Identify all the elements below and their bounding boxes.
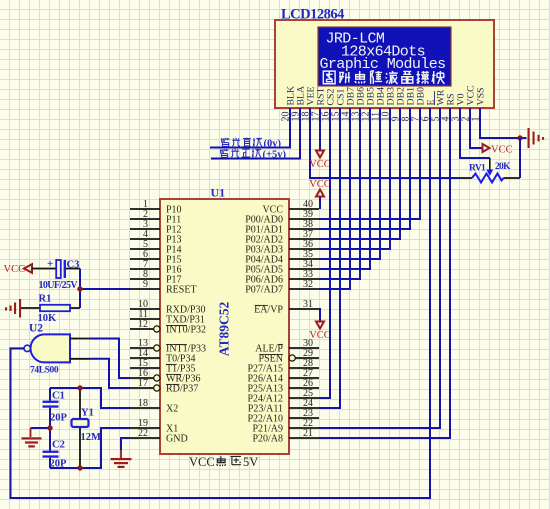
LCD pin 4 (RS) number and name	[441, 94, 457, 122]
U1 pin 36 (P03/AD3)	[245, 239, 319, 255]
LCD pin 8 (DB1) number and name	[401, 87, 417, 122]
wire: LCD R/W to U1 P21/A9	[319, 108, 440, 428]
wire: crystal bottom rail to X1	[50, 428, 130, 468]
svg-text:C2: C2	[52, 440, 65, 451]
wire: VCC/C3 to R1 vertical + junction to RESET	[80, 269, 130, 309]
LCD pin 7 (DB0) number and name	[411, 87, 427, 122]
gate U2 74LS00 (mirrored NAND)	[24, 334, 70, 362]
svg-text:10K: 10K	[38, 313, 58, 324]
svg-text:20P: 20P	[50, 413, 68, 424]
power VCC symbol at LCD pin 2	[483, 144, 513, 156]
svg-text:RD/P37: RD/P37	[166, 384, 198, 395]
net label 背光正极(+5v)	[221, 149, 287, 161]
U1 pin 30 (ALE/P)	[255, 338, 319, 354]
U1 pin 10 (RXD/P30)	[130, 299, 205, 315]
IC U1 AT89C52 body	[160, 199, 289, 454]
wire: LCD CS1 to U1 P23/A11	[319, 108, 340, 408]
U1 caption VCC电压5V	[189, 455, 258, 469]
svg-text:VCC: VCC	[309, 179, 331, 190]
svg-text:74LS00: 74LS00	[30, 366, 59, 376]
U1 pin 19 (X1)	[130, 418, 178, 434]
wire: LCD DB0 to U1 P00	[319, 108, 420, 219]
svg-text:32: 32	[303, 279, 313, 290]
U1 pin 8 (P17)	[130, 269, 182, 285]
svg-text:12M: 12M	[81, 432, 102, 443]
svg-text:VCC: VCC	[189, 455, 215, 469]
U1 pin 4 (P13)	[130, 229, 182, 245]
U1 pin 7 (P16)	[130, 259, 182, 275]
junction crystal top	[77, 385, 82, 390]
U1 pin 33 (P06/AD6)	[245, 269, 319, 285]
LCD screen area	[318, 27, 451, 86]
capacitor C2 (20P)	[43, 428, 59, 468]
svg-text:12: 12	[138, 319, 148, 330]
U1 pin 22 (GND)	[130, 428, 188, 444]
svg-text:R1: R1	[39, 294, 52, 305]
U1 pin 1 (P10)	[130, 199, 182, 215]
wire: LCD DB3 to U1 P03	[319, 108, 390, 249]
svg-text:+: +	[47, 258, 53, 270]
LCD pin 5 (WR) number and name	[431, 89, 447, 121]
svg-text:AT89C52: AT89C52	[217, 302, 232, 357]
svg-text:31: 31	[303, 299, 313, 310]
svg-text:RV1: RV1	[469, 164, 486, 174]
U1 pin 40 (VCC)	[262, 199, 319, 215]
ground symbol (crystal caps)	[22, 428, 42, 448]
U1 pin 2 (P11)	[130, 209, 181, 225]
wire: LCD RST to VCC	[319, 108, 321, 151]
svg-text:U2: U2	[29, 323, 43, 335]
U1 pin 9 (RESET)	[130, 279, 197, 295]
U1 pin 5 (P14)	[130, 239, 182, 255]
LCD module LCD12864	[275, 20, 494, 108]
svg-text:X2: X2	[166, 404, 178, 415]
wire: LCD VCC pin to VCC symbol	[470, 108, 483, 148]
svg-text:9: 9	[143, 279, 148, 290]
LCD pin 12 (DB5) number and name	[361, 87, 377, 122]
U1 pin 3 (P12)	[130, 219, 182, 235]
svg-text:VCC: VCC	[491, 145, 513, 156]
svg-text:EA/VP: EA/VP	[254, 305, 283, 316]
wire: LCD BLK backlight negative stub	[210, 108, 290, 148]
U1 pin 27 (P26/A14)	[247, 368, 319, 384]
wire: LCD DB7 to U1 P07	[319, 108, 350, 289]
U1 pin 28 (P27/A15)	[247, 358, 319, 374]
LCD pin 13 (DB6) number and name	[351, 87, 367, 122]
svg-text:(+5v): (+5v)	[263, 150, 287, 161]
U1 pin 34 (P05/AD5)	[245, 259, 319, 275]
LCD pin 1 (VSS) number and name	[471, 88, 487, 122]
wire: LCD CS2 to U1 P24/A12	[319, 108, 330, 398]
U1 pin 16 (WR/P36)	[130, 368, 200, 384]
U1 pin 24 (P23/A11)	[248, 398, 319, 414]
capacitor C1 (20P)	[43, 388, 59, 428]
svg-text:GND: GND	[166, 434, 188, 445]
U1 pin 37 (P02/AD2)	[245, 229, 319, 245]
svg-text:C3: C3	[67, 260, 80, 271]
LCD pin 9 (DB2) number and name	[391, 87, 407, 122]
power VCC symbol at LCD RST	[309, 151, 331, 171]
svg-text:10UF/25V: 10UF/25V	[39, 280, 79, 291]
U1 pin 13 (INT1/P33)	[130, 338, 206, 354]
LCD pin 17 (RST) number and name	[311, 88, 327, 122]
wire: crystal top rail to X2	[50, 388, 130, 408]
svg-text:20K: 20K	[495, 162, 511, 172]
U1 pin 32 (P07/AD7)	[245, 279, 319, 295]
U1 pin 31 (EA/VP)	[254, 299, 319, 315]
U2 input pin leads	[70, 339, 90, 359]
wire: U1 GND pin down	[121, 438, 130, 450]
wire: U2 output to LCD E (long bottom run)	[11, 108, 431, 498]
LCD pin 15 (CS1) number and name	[331, 89, 347, 122]
wire: C1/C2 midpoint to ground	[31, 427, 51, 429]
ground symbol (right, LCD VSS)	[528, 128, 545, 148]
wire: LCD VEE to RV1 left terminal	[310, 108, 459, 178]
svg-text:22: 22	[138, 428, 148, 439]
svg-text:VCC: VCC	[309, 159, 331, 170]
wire: LCD DB1 to U1 P01	[319, 108, 410, 229]
LCD screen text (Chinese) 图形点阵液晶模块	[323, 71, 444, 84]
svg-text:Y1: Y1	[81, 408, 94, 419]
U1 pin 15 (T1/P35)	[130, 358, 195, 374]
U1 pin 14 (T0/P34)	[130, 348, 195, 364]
wire: LCD BLA backlight positive stub	[211, 108, 300, 159]
power VCC symbol at U1 pin 40	[309, 179, 331, 209]
ground symbol (U1 GND)	[111, 450, 132, 468]
svg-text:U1: U1	[211, 186, 226, 200]
power VCC symbol at U1 pin 31 EA/VP	[309, 309, 331, 341]
svg-text:21: 21	[303, 428, 313, 439]
svg-text:RESET: RESET	[166, 285, 197, 296]
LCD pin 6 (E) number and name	[421, 100, 437, 122]
wire: RV1 right terminal up to VSS/ground node	[519, 138, 521, 178]
U1 pin 17 (RD/P37)	[130, 378, 198, 394]
U1 pin 12 (INT0/P32)	[130, 319, 206, 335]
U2 output lead	[11, 347, 25, 349]
U1 pin 22 (P21/A9)	[252, 418, 319, 434]
U1 pin 39 (P00/AD0)	[245, 209, 319, 225]
LCD pin 3 (V0) number and name	[451, 93, 467, 121]
LCD pin 11 (DB4) number and name	[371, 87, 387, 122]
LCD pin 14 (DB7) number and name	[341, 87, 357, 122]
svg-text:17: 17	[138, 378, 148, 389]
U1 pin 38 (P01/AD1)	[245, 219, 319, 235]
svg-text:INT0/P32: INT0/P32	[166, 325, 206, 336]
wire: U2 input A to U1 WR/P36	[90, 339, 130, 379]
wire: LCD V0 to RV1 wiper	[460, 108, 490, 158]
LCD pin 16 (CS2) number and name	[321, 89, 337, 122]
wire: LCD DB5 to U1 P05	[319, 108, 370, 269]
wire: LCD RS to U1 P20/A8	[319, 108, 450, 438]
wire: LCD DB6 to U1 P06	[319, 108, 360, 279]
U1 pin 21 (P20/A8)	[252, 428, 319, 444]
U1 pin 35 (P04/AD4)	[245, 249, 319, 265]
junction C1/C2 midpoint	[47, 425, 52, 430]
wire: LCD DB2 to U1 P02	[319, 108, 400, 239]
LCD pin 2 (VCC) number and name	[461, 85, 477, 121]
junction VSS/RV1 node	[517, 135, 522, 140]
resistor R1 (10K)	[21, 305, 80, 311]
power VCC symbol (left, at C3)	[4, 264, 33, 275]
svg-text:C1: C1	[52, 391, 65, 402]
U1 pin 26 (P25/A13)	[247, 378, 319, 394]
junction crystal bottom	[77, 465, 82, 470]
svg-text:Graphic Modules: Graphic Modules	[320, 56, 446, 73]
U1 pin 6 (P15)	[130, 249, 182, 265]
svg-text:(0v): (0v)	[264, 139, 282, 150]
net label 背光负极(0v)	[222, 138, 282, 150]
svg-text:P07/AD7: P07/AD7	[245, 285, 283, 296]
svg-text:VSS: VSS	[476, 88, 487, 106]
wire: LCD VSS to ground	[480, 108, 527, 138]
U1 pin 29 (PSEN)	[259, 348, 319, 364]
U1 pin 25 (P24/A12)	[247, 388, 319, 404]
svg-text:LCD12864: LCD12864	[281, 7, 344, 23]
crystal Y1 (12M)	[72, 390, 89, 466]
svg-text:VCC: VCC	[4, 264, 26, 275]
junction at C3/R1/RESET node	[77, 286, 82, 291]
wire: LCD DB4 to U1 P04	[319, 108, 380, 259]
wire: U2 input B to U1 RD/P37	[90, 359, 130, 388]
LCD pin 20 (BLK) number and name	[281, 86, 297, 122]
LCD pin 18 (VEE) number and name	[301, 86, 317, 121]
U1 pin 11 (TXD/P31)	[130, 309, 205, 325]
LCD pin 10 (DB3) number and name	[381, 87, 397, 122]
potentiometer RV1 (20K)	[459, 158, 520, 183]
capacitor C3 (10UF/25V electrolytic)	[32, 258, 80, 278]
svg-text:5V: 5V	[243, 455, 258, 469]
svg-text:P20/A8: P20/A8	[252, 434, 283, 445]
U1 pin 23 (P22/A10)	[247, 408, 319, 424]
svg-text:VCC: VCC	[309, 330, 331, 341]
LCD pin 19 (BLA) number and name	[291, 86, 307, 122]
ground symbol (left of R1)	[5, 299, 21, 318]
svg-text:18: 18	[138, 398, 148, 409]
U1 pin 18 (X2)	[130, 398, 178, 414]
